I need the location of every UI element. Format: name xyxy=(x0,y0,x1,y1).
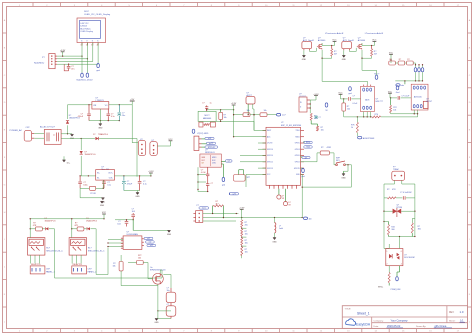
svg-text:pin1.2: pin1.2 xyxy=(209,143,213,145)
svg-text:6: 6 xyxy=(401,251,402,253)
regulator gnd pin xyxy=(100,109,101,124)
netport oval b xyxy=(418,64,421,72)
svg-text:J: J xyxy=(469,267,470,269)
svg-text:D?: D? xyxy=(93,134,95,136)
netport D1 xyxy=(76,73,93,82)
diode D rect2 xyxy=(80,139,96,176)
svg-text:47u: 47u xyxy=(71,69,74,71)
svg-text:GPIO2: GPIO2 xyxy=(295,162,300,164)
svg-text:GND: GND xyxy=(135,196,140,198)
wire ac 1 xyxy=(34,133,44,135)
wire nrf left down xyxy=(197,167,198,191)
svg-text:dim: dim xyxy=(309,218,312,220)
wire LT1 to ADC xyxy=(322,58,367,84)
svg-text:G: G xyxy=(4,184,6,186)
resistor Rv2 10k xyxy=(311,124,324,132)
wire xfmr out top xyxy=(61,133,72,134)
IC U ESP8266 xyxy=(263,122,305,189)
mic element b xyxy=(210,122,215,127)
LT block 1 resistor R 4k7 xyxy=(331,46,338,57)
svg-text:C?: C? xyxy=(202,103,204,105)
opto U 4N35 side xyxy=(192,129,208,150)
wire mosfet drain up xyxy=(160,270,162,273)
svg-text:2: 2 xyxy=(387,263,388,265)
LT block 1 power VCC xyxy=(332,40,337,44)
wire opto feeds xyxy=(384,237,400,249)
svg-text:10k: 10k xyxy=(245,252,248,254)
wire relay RL1 coil right xyxy=(54,229,56,259)
LT block 1 title xyxy=(325,32,344,35)
antenna u.FL xyxy=(301,156,311,160)
svg-text:Company:: Company: xyxy=(374,320,384,322)
capacitor C 104 a xyxy=(131,209,135,220)
regulator U L7805CV xyxy=(92,98,109,109)
capacitor C 630V xyxy=(400,192,415,200)
svg-text:GPIO15: GPIO15 xyxy=(294,168,300,170)
netlabel wu xyxy=(277,113,287,116)
svg-text:1wire: 1wire xyxy=(202,208,206,210)
wire esp chpd xyxy=(258,142,266,144)
LT block 2 junction source xyxy=(361,58,362,59)
svg-text:U?(1/2) 4N35: U?(1/2) 4N35 xyxy=(197,133,208,135)
svg-text:1/1: 1/1 xyxy=(460,319,464,323)
svg-text:R?: R? xyxy=(321,147,323,149)
svg-text:470R: 470R xyxy=(327,147,332,149)
capacitor C 0.1u reg xyxy=(107,109,115,121)
netport pwm xyxy=(391,266,401,291)
display module DIS1 labels xyxy=(84,11,111,16)
svg-text:ADS1115: ADS1115 xyxy=(414,95,422,98)
power VCC top right xyxy=(389,53,394,57)
svg-text:BT136: BT136 xyxy=(397,207,403,209)
junction ladder b xyxy=(241,236,246,237)
svg-text:1: 1 xyxy=(387,251,388,253)
svg-text:ai-HI: ai-HI xyxy=(232,194,236,196)
svg-text:10u: 10u xyxy=(122,115,125,117)
display pin 2 xyxy=(86,43,88,47)
wire 1wire vcc xyxy=(203,213,239,214)
svg-text:SP?: SP? xyxy=(247,177,251,179)
netport gnd module1 xyxy=(348,87,351,95)
svg-text:Drawn By:: Drawn By: xyxy=(416,325,426,328)
buck module U Mini-360 xyxy=(96,166,115,180)
wire mic vcc xyxy=(206,109,234,110)
resistor R4 inline xyxy=(372,114,380,118)
wire nrf cap rails xyxy=(198,175,208,193)
svg-text:4: 4 xyxy=(97,45,98,47)
netport nrf gnd xyxy=(221,164,225,187)
led D esp1 xyxy=(277,189,285,200)
ground regulator xyxy=(98,124,103,130)
netlabel CE xyxy=(221,160,232,163)
switch SW key xyxy=(334,153,348,171)
netport esp gnd xyxy=(301,168,305,178)
svg-text:AC AC In?Out?: AC AC In?Out? xyxy=(40,125,56,128)
LT block 1 junction source xyxy=(321,58,322,59)
svg-text:0.1u: 0.1u xyxy=(111,116,115,118)
svg-text:1mH: 1mH xyxy=(279,228,284,230)
capacitor CP1 label xyxy=(167,287,170,292)
svg-text:ai-HI: ai-HI xyxy=(208,138,212,140)
wire relay vcc rail xyxy=(30,218,105,219)
resistor R 10k gate xyxy=(137,255,144,264)
svg-text:1k: 1k xyxy=(351,127,353,129)
svg-text:WTD-: WTD- xyxy=(378,287,384,289)
resistor R 4k7 pullup xyxy=(213,201,224,218)
svg-text:4: 4 xyxy=(401,263,402,265)
svg-text:Gnd: Gnd xyxy=(396,92,400,94)
wire esp gpio12 xyxy=(240,161,266,163)
junction bus R6 xyxy=(357,116,358,117)
capacitor C ldo xyxy=(315,116,321,119)
svg-text:PANEL_2: PANEL_2 xyxy=(88,270,98,273)
wire esp vcc pin xyxy=(246,174,266,187)
capacitor C buck2 xyxy=(102,180,111,188)
power VCC headers xyxy=(168,139,173,143)
display pin 3 xyxy=(91,43,93,47)
LT block 2 wire source rail xyxy=(362,50,372,58)
wire buck rail left xyxy=(79,175,95,176)
svg-text:R?: R? xyxy=(390,59,392,61)
svg-text:4.7uF: 4.7uF xyxy=(201,172,207,174)
module U NRF24L01 xyxy=(200,150,221,168)
svg-text:C? 0.1uF: C? 0.1uF xyxy=(402,95,411,97)
svg-text:104: 104 xyxy=(132,211,135,213)
capacitor CP2 body xyxy=(166,306,176,319)
netlabel MTXD xyxy=(202,146,218,149)
capacitor C 4.7uF label xyxy=(201,169,207,173)
ground inductor xyxy=(272,238,277,244)
svg-text:R? 0R: R? 0R xyxy=(90,193,96,195)
wire xfmr out bottom xyxy=(61,138,82,139)
wire dimmer left v xyxy=(383,198,384,249)
wire relay RL2 coil left xyxy=(71,219,77,238)
svg-text:1.0: 1.0 xyxy=(460,310,464,314)
opto U MOC3041 xyxy=(386,249,415,266)
resistor box Ra 10k xyxy=(243,110,260,116)
wire adc bus1 xyxy=(344,116,373,118)
svg-text:Blue/Yellow: Blue/Yellow xyxy=(80,28,91,30)
wire triac left pin xyxy=(384,180,395,198)
svg-text:GND: GND xyxy=(98,127,103,129)
LT block 1 opto U xyxy=(302,37,314,50)
module1 bottom pins xyxy=(363,112,371,118)
wire 1wire gnd xyxy=(203,220,236,222)
svg-text:gilf.crimea: gilf.crimea xyxy=(435,324,447,328)
wire ladder bottom xyxy=(241,256,243,259)
resistor R 47R dimmer xyxy=(384,189,402,199)
resistor R42 360 xyxy=(384,222,395,237)
netlabel RXD0 xyxy=(304,141,312,144)
svg-text:10k: 10k xyxy=(347,108,350,110)
ground mosfet xyxy=(154,319,159,325)
ground buck xyxy=(101,198,106,204)
wire buck gnd xyxy=(80,188,104,198)
resistor row R b xyxy=(398,59,405,65)
module2 bottom pins xyxy=(414,110,419,117)
svg-text:10k: 10k xyxy=(112,266,115,268)
wire 1wire data xyxy=(203,217,303,218)
svg-text:TRIAD/PLG: TRIAD/PLG xyxy=(98,133,109,136)
resistor R2 10k module2 xyxy=(390,98,397,114)
svg-text:470uF: 470uF xyxy=(78,116,84,118)
LT block 1 wire opto to gate xyxy=(310,48,317,52)
wire relay RL1 coil left xyxy=(30,219,36,238)
svg-text:CH_PD: CH_PD xyxy=(267,143,273,145)
svg-text:GPIO12: GPIO12 xyxy=(267,162,273,164)
wire pulldown bottom xyxy=(121,271,158,286)
wire caps loop xyxy=(163,275,171,289)
wire rail 5v top xyxy=(68,104,92,105)
power +3.3V buck xyxy=(148,171,154,176)
svg-text:rel2: rel2 xyxy=(149,242,152,244)
svg-text:2020-05-02: 2020-05-02 xyxy=(387,324,401,328)
diode D TRIAD xyxy=(81,133,137,140)
capacitor C 0.1u buck out xyxy=(138,176,147,191)
svg-text:C?: C? xyxy=(211,183,213,185)
wire mosfet source xyxy=(157,286,158,312)
capacitor C nrf2 xyxy=(206,183,213,192)
svg-text:PWM_DIM: PWM_DIM xyxy=(391,289,401,291)
LT block 2 wire drain rail xyxy=(362,43,374,45)
junction module1 vcc xyxy=(343,98,344,99)
wire esp gpio14 xyxy=(240,155,266,157)
svg-text:GND: GND xyxy=(302,59,307,61)
svg-text:Date:: Date: xyxy=(374,325,380,328)
netport display gnd xyxy=(96,64,99,72)
svg-text:gnd: gnd xyxy=(222,185,225,187)
svg-text:GND: GND xyxy=(154,322,159,324)
wire esp gpio15 down xyxy=(301,174,303,217)
svg-text:2: 2 xyxy=(86,45,87,47)
connector POWER_AC xyxy=(10,127,35,141)
wire display scl xyxy=(57,58,87,60)
wire esp adc xyxy=(233,136,266,137)
diode D rect1 xyxy=(66,105,80,134)
wire triac right pin xyxy=(402,180,415,198)
svg-text:rel3: rel3 xyxy=(150,245,153,247)
wire +3.3V stem xyxy=(62,54,64,56)
component U spare xyxy=(234,170,250,181)
svg-text:10k: 10k xyxy=(224,117,227,119)
power +3.3V display xyxy=(60,50,66,54)
svg-text:RELAY?PG: RELAY?PG xyxy=(31,263,41,266)
svg-text:ESP_12_E/F_ESP8266: ESP_12_E/F_ESP8266 xyxy=(281,125,301,127)
wire LT2 to ADC xyxy=(362,58,377,70)
svg-text:104: 104 xyxy=(117,224,120,226)
resistor R relay RL2 xyxy=(74,223,84,231)
svg-text:AO3400: AO3400 xyxy=(358,39,366,42)
wire display pin2 down xyxy=(86,43,88,73)
netlabel pin12 xyxy=(202,142,216,145)
mic resistor xyxy=(204,124,210,126)
regulator U LD1117 xyxy=(299,93,310,112)
wire display sda xyxy=(57,55,82,57)
wire pulldown top xyxy=(121,255,136,263)
wire buck out gnd xyxy=(124,191,140,193)
transistor Q IRF4905 xyxy=(150,267,165,284)
svg-text:AO3400: AO3400 xyxy=(318,39,326,42)
power VCC module1 xyxy=(338,93,343,97)
svg-text:1N4007/PLG: 1N4007/PLG xyxy=(45,221,56,223)
LT block 1 wire drain rail xyxy=(322,43,334,45)
svg-text:IN: IN xyxy=(300,102,302,104)
svg-text:POWER_AC: POWER_AC xyxy=(10,129,23,132)
wire 5v down to headers xyxy=(132,105,138,143)
netport oval a xyxy=(414,63,417,72)
svg-text:REST: REST xyxy=(267,130,271,132)
svg-text:0.1uF: 0.1uF xyxy=(353,103,359,105)
wire dimmer right v xyxy=(414,198,415,237)
wire display pin1 down xyxy=(81,43,83,73)
svg-text:1N4007/PLG: 1N4007/PLG xyxy=(86,221,97,223)
svg-text:20k: 20k xyxy=(245,225,248,227)
svg-text:360: 360 xyxy=(418,229,421,231)
power +5V flag xyxy=(130,99,135,105)
svg-text:360: 360 xyxy=(391,229,394,231)
ground buck out xyxy=(135,193,140,199)
wire mic out xyxy=(216,121,254,131)
svg-text:OLED Display: OLED Display xyxy=(80,31,93,33)
svg-text:GND: GND xyxy=(167,234,172,236)
svg-text:GND: GND xyxy=(70,138,75,140)
LT block 2 title xyxy=(365,32,384,35)
svg-text:1: 1 xyxy=(81,45,82,47)
junction display a xyxy=(62,55,88,64)
resistor pair wire xyxy=(233,114,249,115)
capacitor C 100u buck xyxy=(78,176,87,188)
wire relay RL2 pins xyxy=(72,255,81,263)
power +3.3V ladder xyxy=(239,208,245,220)
capacitor C module2 xyxy=(390,95,411,99)
svg-text:IN+: IN+ xyxy=(97,172,100,174)
svg-text:GPIO13: GPIO13 xyxy=(267,168,273,170)
wire display vcc xyxy=(57,61,93,63)
netlabel uln out1 xyxy=(144,237,153,240)
svg-text:OLED_I2C_OLED_Display: OLED_I2C_OLED_Display xyxy=(84,14,111,16)
svg-text:GPIO4: GPIO4 xyxy=(295,149,300,151)
svg-text:R?: R? xyxy=(399,59,401,61)
svg-text:uFL: uFL xyxy=(305,157,308,159)
inductor L 1mH xyxy=(275,218,284,238)
netport Max4 in xyxy=(374,70,380,79)
connector P TRIAC xyxy=(392,167,405,181)
wire buck rail right xyxy=(115,175,152,176)
ground DC minus xyxy=(62,156,70,164)
svg-text:gnd: gnd xyxy=(301,176,304,178)
diode D relay RL2 xyxy=(84,218,98,230)
resistor row R a xyxy=(389,59,396,65)
ground relay area xyxy=(100,201,105,207)
svg-text:gnd: gnd xyxy=(96,70,99,72)
power VCC relays xyxy=(102,212,107,219)
resistor R7 10k xyxy=(219,110,227,122)
resistor R opto xyxy=(388,266,390,286)
connector P DS18B20 xyxy=(193,205,208,222)
resistor R43 360 xyxy=(411,219,420,237)
wire uln top xyxy=(115,219,134,220)
wire esp gpio16 xyxy=(258,148,266,150)
svg-text:TRIAC: TRIAC xyxy=(393,168,400,171)
netlabel AI-MCP3008 xyxy=(358,136,376,140)
svg-text:ADS: ADS xyxy=(365,98,370,101)
ladder resistor Rb xyxy=(241,229,248,236)
svg-text:3: 3 xyxy=(91,45,92,47)
relay RL2 label xyxy=(88,248,105,253)
svg-text:RELAY?PG: RELAY?PG xyxy=(73,263,83,266)
svg-text:AI-MCP3008: AI-MCP3008 xyxy=(363,137,375,140)
wire display pin3 down xyxy=(92,43,94,62)
netport oval c xyxy=(421,64,424,72)
svg-text:GND: GND xyxy=(100,205,105,207)
LT block 2 ground xyxy=(342,50,347,61)
svg-text:1N4007/PLG: 1N4007/PLG xyxy=(85,154,96,156)
svg-text:GND: GND xyxy=(342,59,347,61)
resistor R 10k pulldown xyxy=(112,262,123,271)
relay RL2 coil box xyxy=(69,238,86,256)
capacitor C 470uF buck out xyxy=(122,176,133,191)
wire vcc to rrow xyxy=(390,57,391,63)
capacitor C15 xyxy=(64,64,74,71)
module U-HW top stubs xyxy=(364,85,371,87)
svg-text:10k: 10k xyxy=(245,234,248,236)
wire bus to module2 xyxy=(404,80,405,84)
svg-text:PANEL_1: PANEL_1 xyxy=(46,270,56,273)
capacitor C nrf1 xyxy=(206,167,209,183)
module2 WCS body xyxy=(411,84,428,110)
IC U ULN2003 xyxy=(121,232,144,250)
svg-text:REV:: REV: xyxy=(449,312,455,314)
power +3.3V mic xyxy=(231,103,237,137)
display pin 4 xyxy=(97,43,99,47)
module U-HW sensor body xyxy=(361,86,375,111)
svg-text:GND: GND xyxy=(272,241,277,243)
netlabel TXD0 xyxy=(304,146,312,149)
netlabel ai-HIGH a xyxy=(202,137,215,140)
transformer AC-AC xyxy=(40,125,61,144)
svg-text:T?: T? xyxy=(53,135,55,137)
svg-text:10k: 10k xyxy=(393,109,396,111)
LT block 2 opto U xyxy=(342,37,354,50)
svg-text:DIS?: DIS? xyxy=(84,11,90,13)
capacitor CP1 body xyxy=(166,288,176,306)
resistor Rv1 10k xyxy=(310,113,317,124)
svg-text:IRF4905S/TO-220: IRF4905S/TO-220 xyxy=(150,270,165,272)
relay RL1 label xyxy=(46,248,63,253)
LT block 1 ground xyxy=(302,50,307,61)
mic module loop xyxy=(198,111,216,121)
resistor box Rb 10k xyxy=(253,110,276,116)
ladder resistor Rd xyxy=(241,247,248,256)
wire esp gpio13 xyxy=(258,167,266,169)
wire dimmer bottom xyxy=(389,236,416,237)
svg-text:IN-: IN- xyxy=(97,177,100,179)
svg-text:0.1u: 0.1u xyxy=(107,184,111,186)
svg-text:R?: R? xyxy=(407,59,409,61)
relay RL1 coil box xyxy=(28,238,45,256)
resistor R relay RL1 xyxy=(33,223,43,231)
title block xyxy=(342,306,467,329)
netlabel dim xyxy=(303,217,312,220)
svg-text:TITLE:: TITLE: xyxy=(345,308,352,310)
diode D relay RL1 xyxy=(42,218,56,230)
wire rail 5v bottom xyxy=(89,120,120,121)
netlabel i2c pair xyxy=(396,84,404,87)
svg-text:C? 0.1u/630V: C? 0.1u/630V xyxy=(400,192,412,194)
header H1 xyxy=(138,139,145,155)
svg-text:0.96" I2C: 0.96" I2C xyxy=(80,23,89,25)
svg-text:EasyEDA: EasyEDA xyxy=(356,323,371,327)
